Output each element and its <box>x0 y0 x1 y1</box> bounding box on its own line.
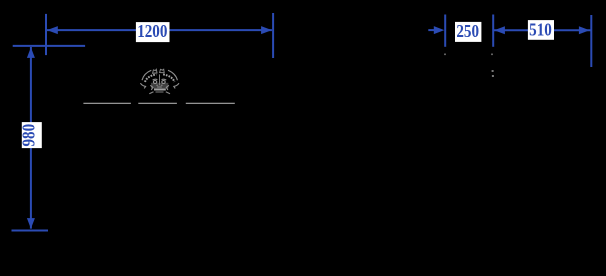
emblem : top left star glyph <box>153 69 157 73</box>
dimension 510 : dimension line <box>493 29 590 31</box>
emblem : left side curl <box>140 83 145 88</box>
dimension 1200 : extension line right <box>272 13 274 58</box>
counter edge line segment 2 <box>138 102 177 104</box>
dimension 1200 : dimension line <box>47 29 272 31</box>
dimension 510 : extension line right <box>590 15 592 67</box>
emblem : bottom left tick <box>149 92 153 94</box>
emblem : right eyebrow arc <box>162 78 167 81</box>
dimension 250 : extension line left <box>444 15 446 47</box>
dimension 980 : text background <box>22 122 42 148</box>
dimension 1200 : left arrowhead <box>47 26 58 34</box>
emblem : under-bar marks <box>156 91 164 93</box>
svg-text:980: 980 <box>18 124 39 147</box>
dimension 1200 : text background <box>136 22 170 42</box>
emblem : center divider <box>159 74 161 85</box>
dimension 980 : bottom arrowhead <box>27 218 35 229</box>
counter edge line segment 3 <box>186 102 235 104</box>
dimension 1200 : right arrowhead <box>261 26 272 34</box>
dimension 980 : extension line top <box>13 45 85 47</box>
dimension 980 : label text (rotated) <box>18 124 39 147</box>
dimension 510 : left arrowhead <box>494 26 505 34</box>
dimension 250 : outside arrow tail <box>428 29 436 31</box>
dimension 250 : label text <box>456 21 479 42</box>
dimension 510 : label text <box>529 19 552 40</box>
small mark mid fixture lower <box>492 75 494 77</box>
emblem : right eye ring <box>162 81 165 84</box>
emblem : left eyebrow arc <box>153 78 158 81</box>
emblem : outer left arc <box>142 70 151 80</box>
svg-text:1200: 1200 <box>137 21 167 42</box>
dimension 510 : right arrowhead <box>579 26 590 34</box>
dimension 1200 : label text <box>137 21 167 42</box>
emblem : left eye ring <box>153 81 156 84</box>
emblem : lower right mark <box>166 85 169 90</box>
svg-text:510: 510 <box>529 19 552 40</box>
emblem : top right star glyph <box>160 69 165 72</box>
dimension 250 : extension line right (shared) <box>492 15 494 47</box>
dimension 250 : text background <box>455 22 481 42</box>
svg-text:250: 250 <box>456 21 479 42</box>
dimension 980 : extension line bottom <box>12 230 49 232</box>
emblem : outer right arc <box>168 70 177 80</box>
dimension 250 : outside arrowhead pointing right <box>434 26 445 34</box>
dimension 510 : text background <box>528 20 554 40</box>
small mark at right wall point <box>491 54 493 56</box>
emblem : lower left mark <box>150 85 153 90</box>
emblem : right side curl <box>174 83 179 88</box>
emblem : right wheat ear arc <box>163 74 174 82</box>
small mark mid fixture upper <box>492 70 494 72</box>
small mark at left wall point <box>444 54 446 56</box>
emblem : gate doors <box>156 85 162 87</box>
emblem : bottom bar <box>154 89 166 91</box>
emblem : shading fill <box>151 83 168 89</box>
dimension 980 : top arrowhead <box>27 47 35 58</box>
dimension 1200 : extension line left <box>45 14 47 55</box>
counter edge line segment 1 <box>83 102 130 104</box>
emblem : left wheat ear arc <box>145 74 156 82</box>
emblem : bottom right tick <box>166 92 170 94</box>
dimension 980 : dimension line <box>30 47 32 229</box>
